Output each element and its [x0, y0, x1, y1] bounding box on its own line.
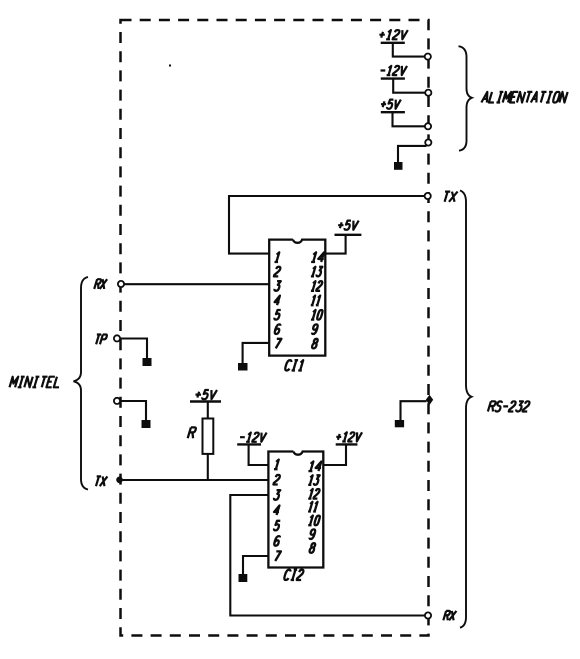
- CI1 pin 7 number: [276, 339, 282, 349]
- power label +12V at CI2: [336, 432, 362, 441]
- power rail bar +5V at resistor: [190, 400, 221, 402]
- wire -12V rail to terminal: [393, 80, 425, 93]
- dashed enclosure border: [121, 20, 429, 636]
- wire RS-232 junction to ground: [401, 401, 427, 420]
- ground at mid terminal: [142, 420, 151, 428]
- CI2 pin 1 number: [274, 460, 279, 470]
- label ALIMENTATION: [481, 92, 567, 103]
- IC CI2 reference label: [284, 570, 303, 580]
- CI2 pin 6 number: [274, 536, 280, 546]
- CI1 pin 3 number: [274, 281, 280, 291]
- brace MINITEL: [74, 277, 89, 490]
- label RX right: [443, 611, 456, 620]
- CI2 pin 12 number: [308, 489, 319, 499]
- junction dot TX left: [116, 477, 123, 484]
- terminal circle -12V: [425, 90, 431, 96]
- CI2 pin 13 number: [308, 475, 320, 485]
- wire RX-left to CI1 pin 3: [124, 283, 270, 285]
- brace RS-232: [460, 191, 472, 628]
- power label +12V top: [379, 30, 407, 39]
- wire CI1 pin 1 to TX terminal: [229, 196, 425, 254]
- wire mid terminal to ground: [120, 401, 146, 420]
- stray printed dot: [169, 65, 171, 67]
- CI2 pin 9 number: [309, 529, 315, 539]
- CI1 pin 8 number: [312, 339, 318, 349]
- CI1 pin 1 number: [275, 252, 280, 262]
- CI1 pin 6 number: [275, 324, 281, 334]
- terminal circle mid left: [114, 398, 120, 404]
- terminal circle TP: [114, 335, 120, 341]
- power label -12V at CI2: [240, 433, 267, 442]
- wire 4th terminal to ground: [398, 146, 427, 162]
- terminal circle 4th power: [425, 139, 431, 145]
- resistor R label: [188, 427, 196, 438]
- power label +5V at resistor: [195, 390, 217, 399]
- wire +5V rail to resistor top: [207, 403, 209, 419]
- CI2 pin 11 number: [308, 502, 317, 512]
- power rail bar +5V top: [381, 111, 405, 113]
- CI1 pin 11 number: [311, 296, 320, 306]
- terminal circle +12V: [425, 54, 431, 60]
- wire +12V rail to top terminal: [393, 43, 425, 57]
- power label +5V at CI1: [338, 221, 359, 230]
- wire CI2 pin 3 to RX terminal: [230, 495, 425, 616]
- resistor R body: [203, 419, 214, 454]
- wire TP to ground: [121, 339, 148, 359]
- IC CI1 reference label: [285, 360, 303, 370]
- CI2 pin 8 number: [310, 543, 316, 553]
- power rail bar -12V at CI2: [237, 443, 261, 445]
- IC CI1 body with notch: [269, 240, 325, 356]
- ground at RS-232 junction: [395, 420, 404, 427]
- label TX left: [96, 476, 107, 486]
- CI2 pin 3 number: [274, 490, 280, 500]
- CI2 pin 14 number: [308, 462, 321, 472]
- ground at 4th power terminal: [394, 162, 403, 170]
- wire +5V rail to terminal: [393, 113, 426, 126]
- IC CI2 body with notch: [268, 452, 323, 568]
- label TX right: [445, 192, 458, 202]
- terminal circle RX left: [118, 281, 124, 287]
- CI2 pin 5 number: [274, 521, 280, 531]
- wire -12V rail to CI2 pin 1: [249, 446, 269, 466]
- power rail bar +12V at CI2: [336, 443, 358, 445]
- terminal circle +5V: [425, 123, 431, 129]
- CI1 pin 12 number: [311, 281, 322, 291]
- CI1 pin 5 number: [274, 310, 280, 320]
- label MINITEL: [9, 377, 59, 388]
- junction diamond RS-232: [426, 395, 433, 405]
- wire TX-left to CI2 pin 2: [120, 479, 269, 481]
- CI2 pin 7 number: [275, 551, 281, 561]
- wire resistor bottom to TX line: [207, 454, 209, 480]
- CI1 pin 4 number: [275, 296, 280, 306]
- ground at CI2 pin 7: [239, 574, 248, 582]
- power rail bar +12V top: [381, 42, 405, 44]
- CI2 pin 10 number: [308, 516, 320, 526]
- CI1 pin 2 number: [274, 267, 280, 277]
- power rail bar +5V at CI1: [335, 234, 362, 236]
- wire +12V rail to CI2 pin 14: [323, 446, 346, 466]
- label RS-232: [488, 401, 530, 411]
- CI1 pin 13 number: [311, 267, 323, 277]
- label RX left: [94, 279, 107, 289]
- CI2 pin 2 number: [273, 475, 279, 485]
- terminal circle RX right: [425, 612, 431, 618]
- ground at TP: [143, 358, 152, 366]
- power label +5V top: [381, 100, 401, 109]
- CI1 pin 9 number: [312, 324, 318, 334]
- power rail bar -12V top: [381, 77, 405, 79]
- label TP left: [96, 335, 107, 345]
- wire CI1 pin 14 to +5V rail: [325, 235, 345, 254]
- CI1 pin 10 number: [311, 310, 323, 320]
- wire CI2 pin 7 to ground: [243, 556, 268, 574]
- wire CI1 pin 7 to ground: [243, 343, 270, 363]
- brace ALIMENTATION: [459, 46, 472, 151]
- CI2 pin 4 number: [274, 505, 279, 515]
- power label -12V top: [381, 66, 408, 75]
- ground at CI1 pin 7: [238, 363, 248, 371]
- CI1 pin 14 number: [311, 252, 324, 262]
- terminal circle TX right: [425, 193, 431, 199]
